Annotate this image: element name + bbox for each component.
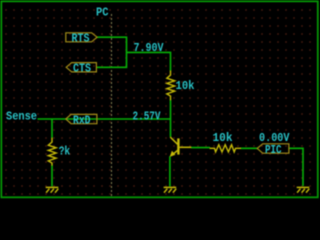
- svg-text:?k: ?k: [59, 146, 71, 159]
- svg-text:CTS: CTS: [73, 63, 91, 76]
- svg-text:7.90V: 7.90V: [134, 42, 164, 55]
- svg-text:2.57V: 2.57V: [133, 110, 161, 123]
- svg-text:RxD: RxD: [73, 115, 91, 128]
- svg-text:0.00V: 0.00V: [259, 132, 290, 145]
- svg-text:PIC: PIC: [265, 144, 282, 157]
- svg-text:RTS: RTS: [72, 32, 90, 45]
- svg-text:Sense: Sense: [6, 110, 37, 123]
- svg-text:10k: 10k: [213, 132, 233, 145]
- svg-text:10k: 10k: [176, 80, 195, 93]
- svg-text:PC: PC: [96, 6, 109, 19]
